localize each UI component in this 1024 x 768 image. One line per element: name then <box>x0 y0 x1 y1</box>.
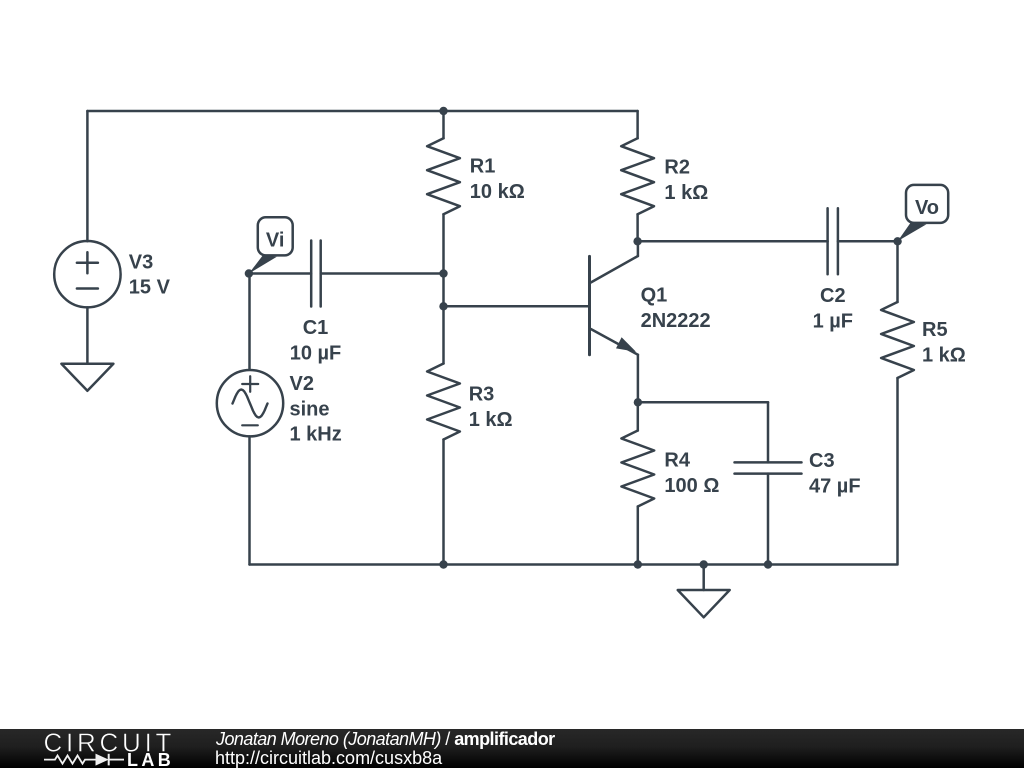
wire Vi node to C1 <box>249 272 311 275</box>
wire C2 to Vo node <box>838 240 898 243</box>
svg-text:R1: R1 <box>470 156 496 178</box>
svg-text:10 µF: 10 µF <box>290 342 342 364</box>
wire C1 to R1/R3 junction <box>321 272 444 275</box>
svg-text:R3: R3 <box>469 384 495 406</box>
svg-text:Vo: Vo <box>915 197 939 219</box>
svg-text:Q1: Q1 <box>641 285 668 307</box>
capacitor C1 <box>311 241 321 307</box>
wire C3 bottom lead <box>767 474 770 565</box>
node base junction <box>439 302 447 310</box>
transistor Q1 <box>590 241 638 402</box>
svg-text:R2: R2 <box>664 156 690 178</box>
footer text <box>215 728 217 730</box>
svg-text:C2: C2 <box>820 285 846 307</box>
node C1 R1 junction <box>439 269 447 277</box>
svg-text:15 V: 15 V <box>129 277 171 299</box>
svg-text:1 kHz: 1 kHz <box>290 424 342 446</box>
svg-text:1 µF: 1 µF <box>813 310 853 332</box>
wire C3 top lead <box>767 402 770 462</box>
svg-text:V2: V2 <box>290 373 314 395</box>
svg-text:100 Ω: 100 Ω <box>664 475 719 497</box>
node Vi <box>245 269 253 277</box>
footer bar <box>0 729 1024 768</box>
wire V2 bottom to rail <box>248 436 251 564</box>
svg-text:1 kΩ: 1 kΩ <box>664 182 708 204</box>
ground bottom <box>678 590 730 617</box>
node Vo <box>893 237 901 245</box>
svg-text:C1: C1 <box>303 317 329 339</box>
node top rail R1 <box>439 107 447 115</box>
svg-text:V3: V3 <box>129 251 153 273</box>
wire base <box>444 305 589 308</box>
resistor R2 <box>621 111 654 241</box>
resistor R3 <box>427 306 460 564</box>
svg-text:R5: R5 <box>922 319 948 341</box>
wire junction down <box>442 274 445 307</box>
resistor R1 <box>427 111 460 274</box>
resistor R5 <box>881 241 914 564</box>
emitter arrow <box>616 337 636 352</box>
wire emitter to C3 <box>638 401 768 404</box>
node emitter <box>634 398 642 406</box>
ground stem bottom <box>702 565 705 591</box>
svg-text:LAB: LAB <box>127 750 174 768</box>
flag Vi <box>249 217 293 273</box>
node R4 rail <box>634 560 642 568</box>
svg-text:2N2222: 2N2222 <box>641 310 711 332</box>
capacitor C3 <box>735 462 802 473</box>
wire bottom rail <box>250 563 897 566</box>
node C3 rail <box>764 560 772 568</box>
capacitor C2 <box>828 208 838 274</box>
svg-text:47 µF: 47 µF <box>809 475 861 497</box>
svg-text:R4: R4 <box>664 450 690 472</box>
wire V3 top lead <box>86 111 89 241</box>
wire collector to C2 <box>638 240 828 243</box>
CircuitLab logo <box>40 729 230 768</box>
svg-text:sine: sine <box>290 398 330 420</box>
wire V3 bottom lead <box>86 307 89 363</box>
voltage source V2 sine <box>217 370 283 436</box>
node collector <box>633 237 641 245</box>
resistor R4 <box>621 402 654 564</box>
wire top rail <box>87 110 637 113</box>
ground below V3 <box>61 364 113 391</box>
voltage source V3 <box>54 241 120 307</box>
svg-text:C3: C3 <box>809 450 835 472</box>
svg-text:10 kΩ: 10 kΩ <box>470 181 525 203</box>
svg-text:1 kΩ: 1 kΩ <box>469 409 513 431</box>
svg-text:1 kΩ: 1 kΩ <box>922 344 966 366</box>
node ground rail <box>700 560 708 568</box>
node R3 rail <box>439 560 447 568</box>
svg-text:Vi: Vi <box>266 230 285 252</box>
wire Vi node down to V2 <box>248 274 251 370</box>
flag Vo <box>898 185 949 241</box>
